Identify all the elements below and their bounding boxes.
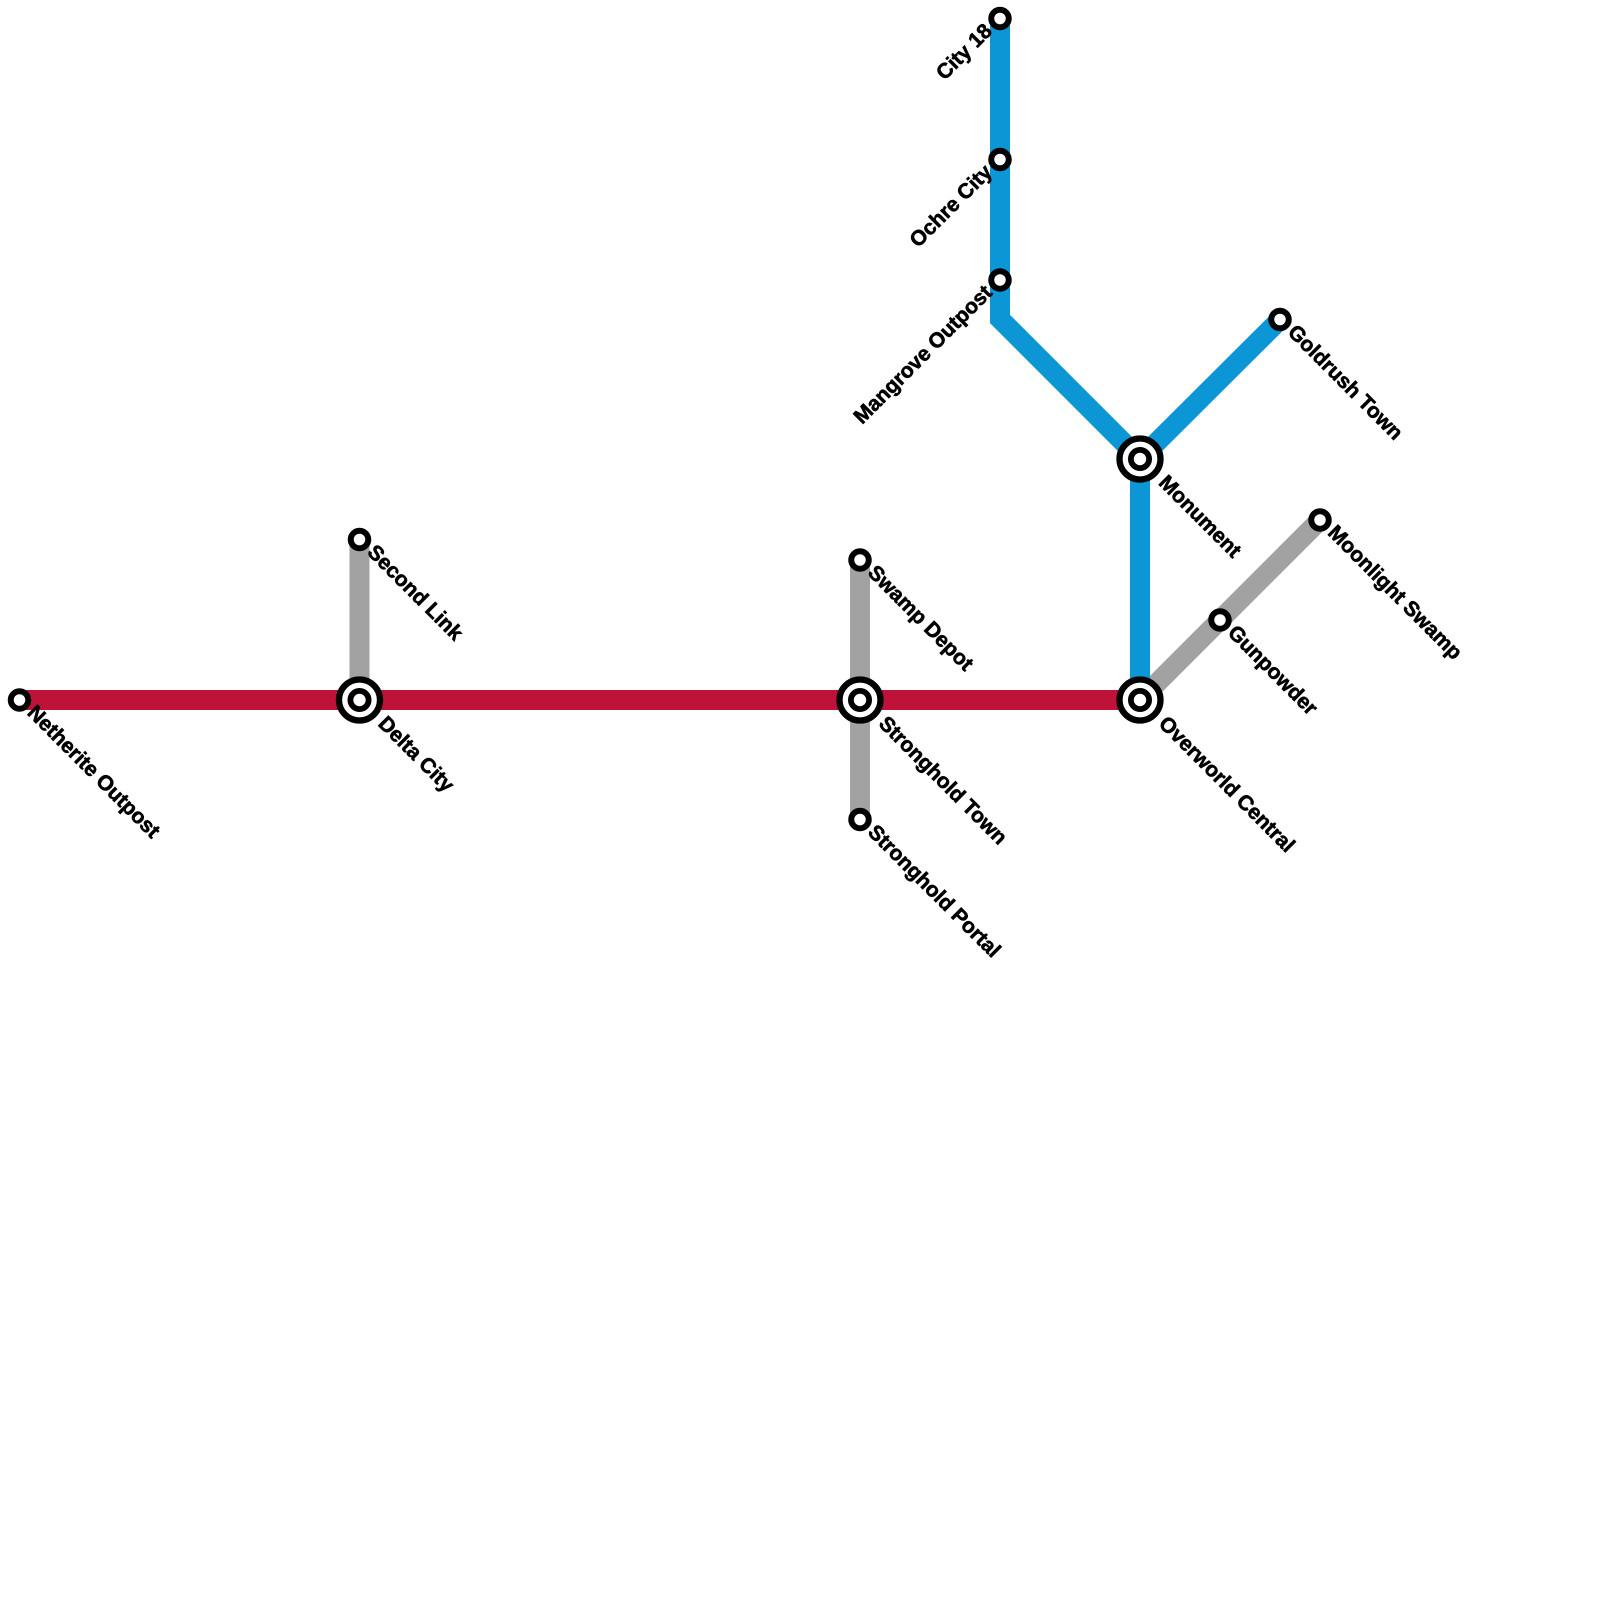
node Ochre City	[991, 151, 1009, 169]
node Overworld Central interchange	[1120, 680, 1161, 721]
wire gray line Swamp Depot to Stronghold Portal	[850, 560, 870, 820]
node Stronghold Town interchange	[840, 680, 881, 721]
node Netherite Outpost	[11, 691, 29, 709]
node Goldrush Town	[1271, 311, 1289, 329]
node Delta City interchange	[339, 680, 380, 721]
node Monument interchange	[1120, 439, 1161, 480]
node City 18	[991, 10, 1009, 28]
node Swamp Depot	[851, 551, 869, 569]
node Mangrove Outpost	[991, 271, 1009, 289]
wire blue branch Monument to Goldrush Town	[1140, 320, 1280, 460]
wire red line Netherite Outpost to Overworld Central	[20, 690, 1141, 710]
node Gunpowder	[1211, 611, 1229, 629]
node Stronghold Portal	[851, 811, 869, 829]
wire gray line Second Link to Delta City	[350, 540, 370, 701]
node Moonlight Swamp	[1311, 511, 1329, 529]
wire gray line Overworld Central to Moonlight Swamp	[1140, 520, 1320, 700]
node Second Link	[351, 531, 369, 549]
wire blue line City 18 to Overworld Central	[1000, 19, 1140, 701]
